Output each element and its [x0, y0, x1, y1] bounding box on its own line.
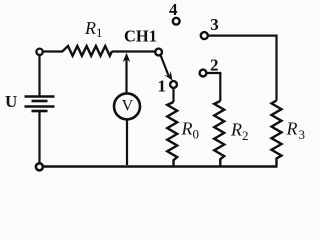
contact 1 (open circle) — [170, 81, 177, 88]
resistor R0 (vertical zigzag) — [167, 102, 177, 166]
wire: left vertical down to battery — [38, 55, 40, 96]
svg-text:V: V — [122, 97, 134, 114]
svg-text:1: 1 — [158, 77, 167, 96]
svg-text:2: 2 — [210, 55, 219, 74]
svg-text:4: 4 — [169, 0, 178, 19]
switch pole CH1 (open circle) — [155, 49, 162, 56]
contact 2 (open circle) — [200, 70, 207, 77]
resistor R3 (vertical zigzag) — [272, 101, 282, 166]
contact 4 (open circle) — [173, 18, 180, 25]
wire: voltmeter up probe with arrowhead to top wire — [125, 57, 127, 94]
switch wiper arrow to contact 1 — [160, 55, 168, 76]
wire: contact 2 to right then down to R2 — [206, 73, 220, 101]
wire: contact 3 to right then down to R3 — [208, 36, 277, 101]
wire: voltmeter down to bottom bus — [126, 119, 128, 165]
terminal: left bottom (open circle) — [36, 163, 43, 170]
resistor R2 (vertical zigzag) — [214, 101, 224, 166]
wire: bottom bus — [43, 165, 277, 168]
voltmeter V (circle) — [114, 93, 140, 119]
wire: R1 to switch pole — [112, 50, 155, 52]
svg-text:3: 3 — [210, 15, 219, 34]
resistor R1 (horizontal zigzag) — [63, 46, 113, 56]
wire: contact 1 down to R0 — [172, 88, 174, 102]
wire: battery to bottom terminal — [38, 111, 40, 163]
svg-text:CH1: CH1 — [124, 27, 157, 46]
battery U plates — [25, 95, 55, 98]
terminal: left top (open circle) — [36, 49, 42, 55]
contact 3 (open circle) — [201, 32, 208, 39]
wire: top from left terminal to R1 — [43, 50, 63, 52]
svg-text:U: U — [5, 92, 17, 111]
